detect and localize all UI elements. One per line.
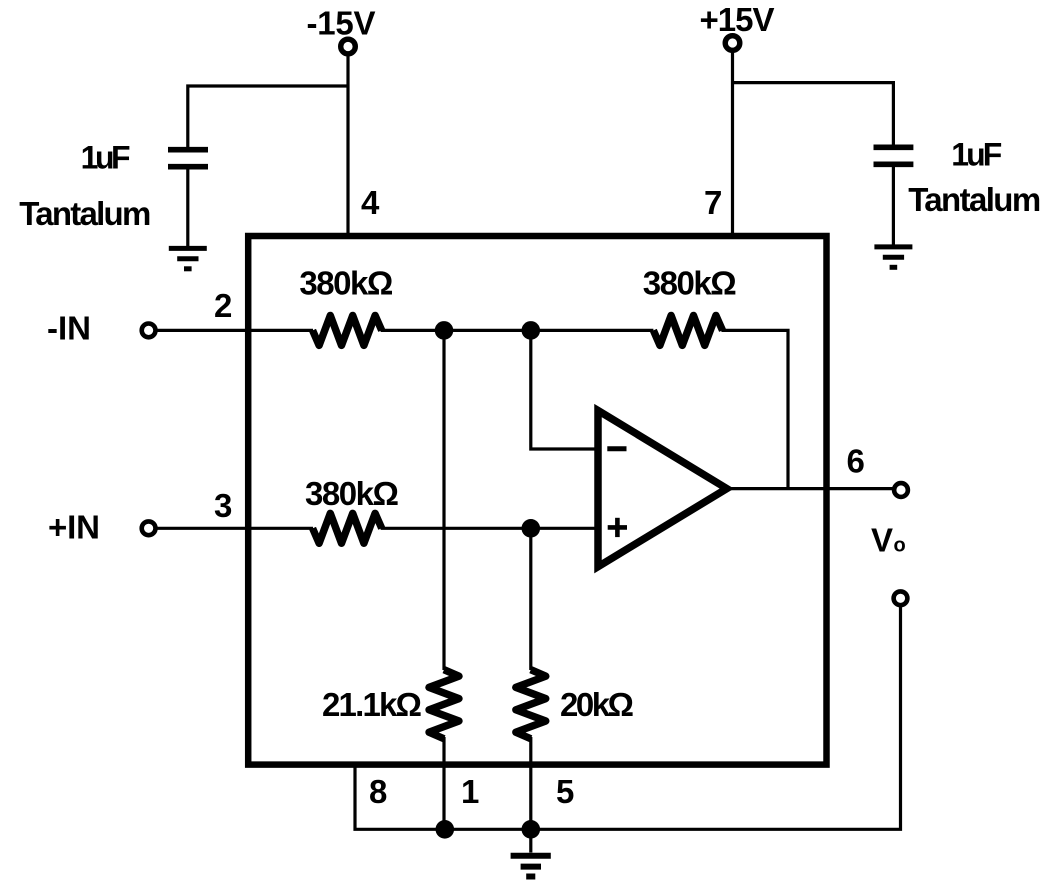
node dot D (pin 1 on rail) (436, 820, 455, 839)
svg-text:V: V (871, 522, 893, 559)
resistor R1 380k (313, 315, 382, 345)
svg-text:3: 3 (214, 487, 232, 524)
op-amp inverting mark (607, 446, 626, 451)
wire: node A down to R4 (442, 330, 445, 670)
svg-text:Tantalum: Tantalum (19, 195, 151, 232)
svg-text:380kΩ: 380kΩ (299, 265, 393, 302)
svg-text:2: 2 (214, 287, 232, 324)
wire: R5 to bottom rail (pin 5) (529, 737, 532, 829)
wire: +15V terminal down to pin 7 (731, 50, 734, 239)
node dot A (tap to 21.1k) (435, 321, 454, 340)
wire: +15V rail to capacitor C2 (733, 83, 894, 145)
wire: R2 to output node (corner) (721, 330, 788, 488)
output terminal (894, 483, 908, 497)
svg-text:380kΩ: 380kΩ (643, 265, 737, 302)
wire: C2 to ground (892, 167, 895, 245)
svg-text:1uF: 1uF (81, 140, 131, 176)
svg-text:o: o (894, 535, 906, 557)
capacitor C1 plates (168, 147, 208, 153)
wire: R1 to R2 summing run (381, 329, 654, 332)
+15V terminal (725, 36, 740, 51)
resistor R2 380k feedback (653, 315, 722, 345)
svg-text:+IN: +IN (48, 508, 100, 545)
svg-text:7: 7 (704, 184, 722, 221)
node dot E (pin 5 on rail) (522, 820, 541, 839)
IC boundary box (248, 236, 826, 765)
svg-text:1: 1 (461, 773, 479, 810)
resistor R3 380k (313, 513, 382, 543)
svg-text:380kΩ: 380kΩ (305, 475, 399, 512)
ground (C2) (874, 247, 912, 267)
svg-text:8: 8 (369, 773, 387, 810)
resistor R5 20k (516, 670, 546, 739)
svg-text:+15V: +15V (700, 1, 775, 38)
svg-text:6: 6 (847, 443, 865, 480)
wire: C1 to ground (186, 170, 189, 247)
wire: -15V rail to capacitor C1 (188, 86, 348, 148)
svg-text:Tantalum: Tantalum (908, 181, 1041, 218)
wire: R4 to bottom rail (pin 1) (442, 737, 445, 829)
node dot B (tap to inverting input) (522, 321, 541, 340)
+IN terminal (142, 521, 156, 535)
ground (C1) (169, 248, 207, 268)
svg-text:20kΩ: 20kΩ (560, 686, 634, 723)
op-amp non-inverting mark (608, 525, 627, 530)
bottom rail: pin 8 stub to Vo sense (355, 605, 901, 829)
wire: inverting branch to op-amp (531, 330, 595, 449)
Vo sense terminal (894, 591, 908, 605)
-IN terminal (142, 324, 156, 338)
svg-text:21.1kΩ: 21.1kΩ (322, 686, 422, 723)
wire: R3 to op-amp non-inverting input (381, 527, 595, 530)
svg-text:1uF: 1uF (951, 137, 1002, 173)
capacitor C2 plates (874, 145, 914, 151)
wire: node C down to R5 (529, 528, 532, 670)
node dot C (tap to 20k) (522, 519, 541, 538)
-15V terminal (341, 39, 356, 54)
op-amp U1 (598, 411, 727, 567)
wire: op-amp output to terminal (726, 487, 895, 490)
svg-text:-15V: -15V (307, 5, 376, 42)
svg-text:4: 4 (361, 184, 380, 221)
ground (pin 5 rail) (529, 829, 532, 852)
wire: -15V terminal down to pin 4 (346, 53, 349, 239)
resistor R4 21.1k (429, 670, 459, 739)
wire: +IN terminal to R3 (156, 527, 313, 530)
svg-text:5: 5 (556, 773, 574, 810)
svg-text:-IN: -IN (47, 310, 91, 347)
wire: -IN terminal to R1 (156, 329, 313, 332)
